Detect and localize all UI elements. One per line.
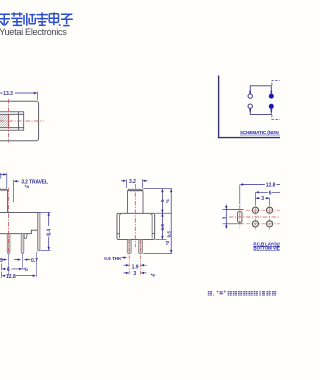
pcb left dim 3 vertical: [225, 205, 227, 229]
contact open circle 1: [248, 94, 252, 98]
front body outline: [0, 212, 38, 233]
side right ext line body bottom: [155, 238, 166, 240]
top view red vertical centerline: [8, 99, 10, 143]
svg-text:8.4: 8.4: [46, 229, 52, 236]
svg-text:Yuetai Electronics: Yuetai Electronics: [0, 27, 67, 37]
pcb pad 2: [267, 207, 273, 213]
side body clip right: [151, 215, 155, 239]
terminal stub top left: [249, 91, 251, 94]
front view red centerline: [8, 188, 10, 254]
extension line right: [37, 92, 39, 101]
top view body outline: [0, 101, 39, 141]
top view slider frame: [0, 112, 24, 130]
dim 8.4 line: [48, 212, 50, 250]
svg-text:6.9: 6.9: [160, 224, 165, 231]
pcb dim 3 ext: [269, 198, 271, 205]
side dim 3.2 extension lines: [126, 179, 142, 188]
pcb mounting slot: [238, 212, 242, 223]
svg-text:BOTTOM VIEW: BOTTOM VIEW: [253, 245, 280, 250]
pcb pad 3: [252, 221, 258, 227]
front body peg: [24, 234, 27, 239]
side body outline: [117, 213, 155, 239]
0.5 thk arrow: [122, 257, 125, 259]
pcb dim 6: [259, 191, 280, 193]
dimension 13.3 line: [0, 92, 37, 94]
front knob right edge: [7, 190, 9, 213]
side dim 5 line: [161, 189, 163, 214]
svg-text:0.7: 0.7: [31, 258, 38, 264]
top view inner profile lines: [9, 112, 24, 130]
pcb ext line row1: [223, 208, 244, 210]
dashed actuator link top: [272, 81, 280, 86]
side pin left: [127, 239, 131, 253]
side pin right: [139, 239, 143, 253]
side dim 3: [124, 272, 147, 274]
top view red horizontal centerline: [0, 120, 44, 122]
extension line knob edge: [6, 173, 8, 188]
small dim left tick: [0, 173, 2, 179]
pin red centerline left: [128, 240, 130, 275]
svg-text:*c: *c: [165, 198, 170, 203]
drawing frame border horizontal: [218, 137, 280, 139]
pcb dim 3: [255, 197, 269, 199]
pcb red centerline axis horizontal: [229, 216, 280, 218]
side dim 9.5 line: [170, 189, 172, 254]
pcb title underline 1: [253, 245, 280, 247]
pcb red col line 1: [254, 203, 256, 230]
svg-text:0.5 THK: 0.5 THK: [104, 256, 122, 261]
pcb ext line row2: [223, 223, 244, 225]
svg-text:*e: *e: [151, 272, 156, 277]
schematic title underline: [240, 134, 280, 136]
front dim 12.8: [2, 272, 34, 278]
side right ext line pin bottom: [143, 252, 172, 254]
side right ext line knob top: [143, 188, 172, 190]
side knob edges: [128, 191, 143, 214]
svg-text:1.9: 1.9: [132, 264, 139, 270]
note text blocks: [208, 291, 276, 296]
front pin 1: [7, 234, 10, 254]
side dim 3.2 line and arrows: [121, 180, 148, 182]
dashed actuator link bottom: [272, 115, 280, 119]
side dim 1.9: [124, 264, 147, 266]
dim 8.4 extension top: [39, 211, 51, 213]
pcb dim 12.8 ext: [239, 185, 241, 205]
svg-text:12.8: 12.8: [266, 183, 276, 189]
wire top: [250, 86, 271, 94]
drawing frame border vertical: [218, 76, 220, 139]
pcb red col line 2: [269, 203, 271, 230]
svg-text:3: 3: [133, 271, 136, 277]
contact filled dot 2: [269, 104, 274, 109]
pcb dim 6 ext: [254, 192, 256, 205]
pcb red row line 2: [246, 223, 280, 225]
svg-text:SCHEMATIC (NON: SCHEMATIC (NON: [240, 130, 279, 135]
svg-text:13.3: 13.3: [3, 91, 13, 97]
pcb pad 1: [252, 207, 258, 213]
svg-text:3: 3: [221, 216, 226, 219]
terminal stub bottom right: [270, 109, 272, 112]
side dim 6.9 line: [161, 213, 163, 239]
travel dim line with left arrow: [17, 180, 19, 182]
pcb title underline 2: [253, 249, 280, 251]
front pin 3: [38, 213, 41, 251]
pcb red row line 1: [246, 209, 280, 211]
svg-text:3: 3: [0, 258, 3, 264]
dim 8.4 extension bottom: [40, 249, 50, 251]
travel extension line: [13, 180, 15, 203]
svg-text:*b: *b: [23, 267, 28, 272]
wire bottom: [250, 109, 271, 115]
pcb pad 4: [267, 221, 273, 227]
front pin 2: [21, 234, 24, 254]
front knob serrated top: [0, 189, 8, 191]
side knob serrated top: [128, 189, 143, 191]
top view knob hatched: [0, 114, 9, 127]
svg-text:12.8: 12.8: [6, 274, 16, 280]
logo chinese text 东莞悦泰电子 (pseudo-glyph blocks): [0, 12, 73, 25]
svg-text:9.5: 9.5: [166, 231, 171, 238]
svg-text:6: 6: [7, 267, 10, 273]
note text internal texture: [207, 291, 280, 296]
pin red centerline right: [140, 240, 142, 275]
front dim 0.7: [14, 259, 30, 261]
terminal stub bottom left: [249, 108, 251, 111]
side view red centerline: [134, 184, 136, 247]
front dim 6: [2, 264, 20, 271]
pcb dim 12.8: [243, 184, 280, 186]
svg-text:3: 3: [261, 196, 264, 202]
terminal stub top right: [270, 91, 272, 94]
contact filled dot 1: [269, 94, 274, 99]
pcb red centerline slot vertical: [239, 205, 241, 229]
svg-text:*d: *d: [165, 240, 170, 245]
dimension 13.3 arrow: [34, 92, 38, 95]
front pins extension stubs: [9, 252, 37, 277]
small dim arrow top left: [0, 173, 5, 175]
side body clip left: [117, 215, 121, 239]
svg-text:*a: *a: [25, 184, 30, 189]
contact open circle 2: [248, 104, 252, 108]
svg-text:6: 6: [269, 190, 272, 196]
side right ext line body top: [155, 212, 172, 214]
